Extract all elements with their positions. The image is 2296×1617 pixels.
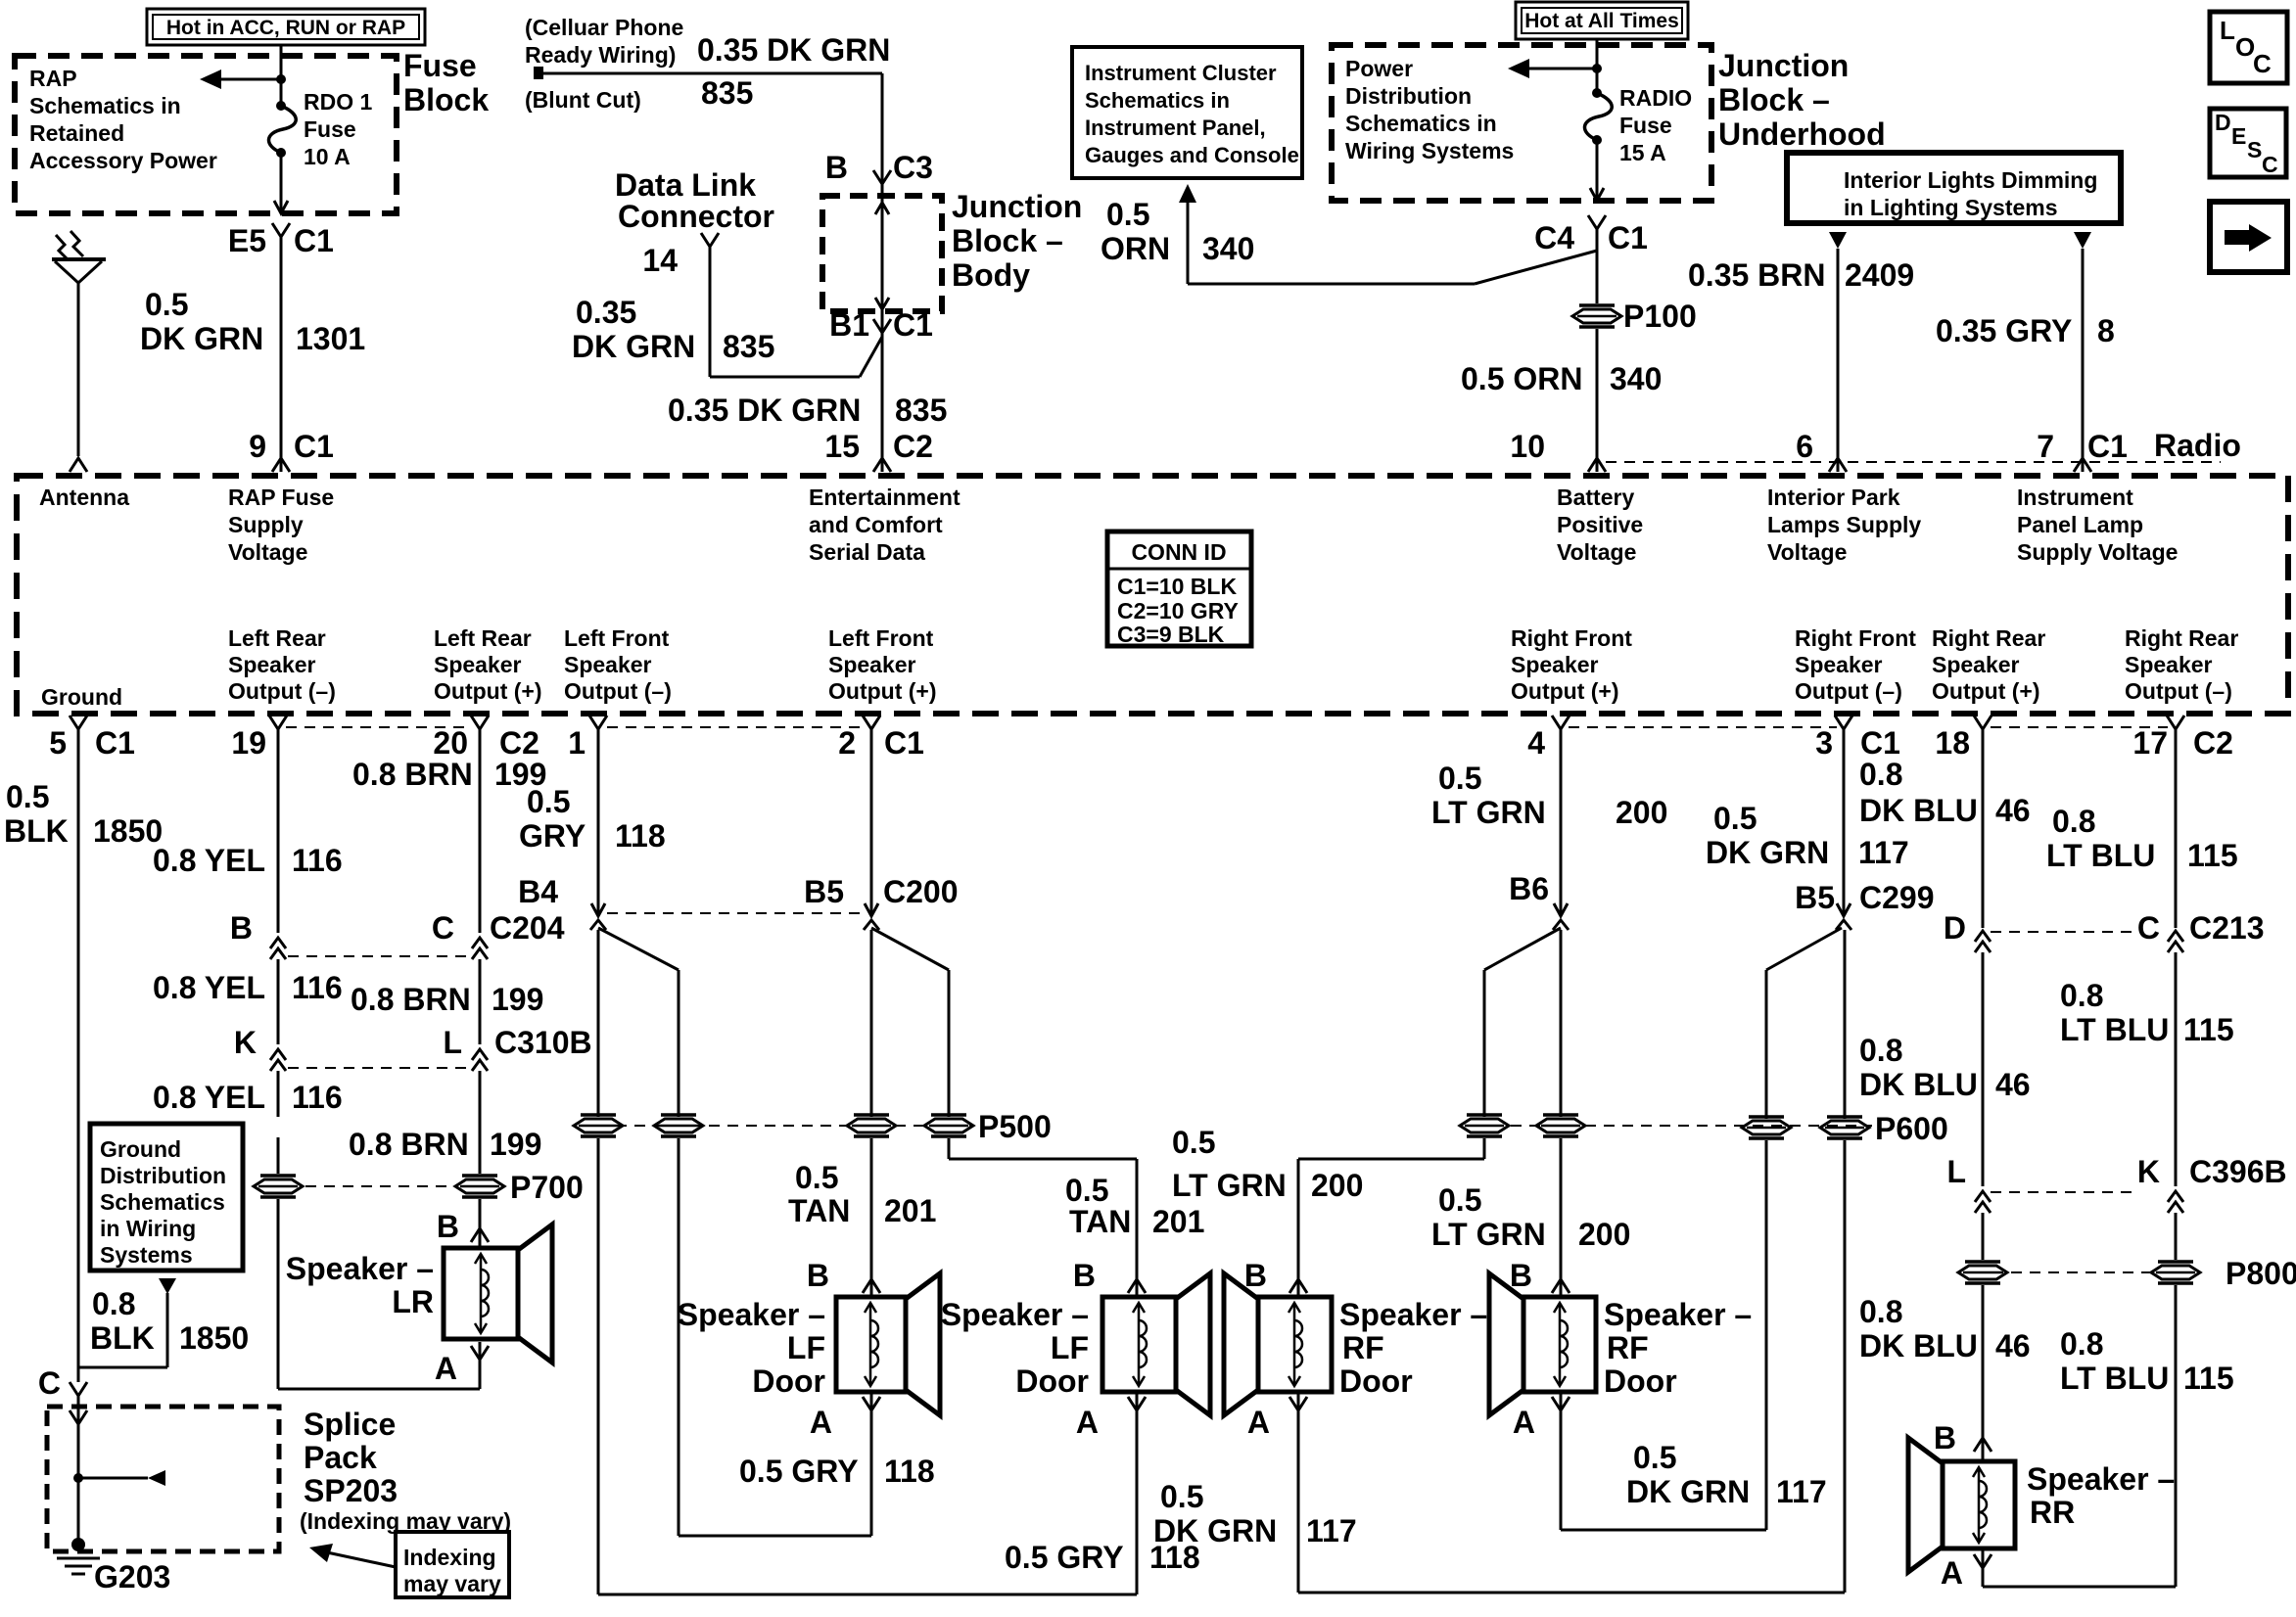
svg-text:C2=10 GRY: C2=10 GRY [1117, 598, 1239, 624]
svg-text:LT GRN: LT GRN [1431, 1217, 1546, 1252]
svg-text:46: 46 [1995, 1067, 2031, 1102]
svg-text:in Wiring: in Wiring [100, 1216, 196, 1241]
svg-text:DK GRN: DK GRN [1626, 1474, 1750, 1509]
svg-text:200: 200 [1578, 1217, 1630, 1252]
svg-text:C1: C1 [1860, 725, 1900, 761]
svg-text:C1: C1 [893, 307, 933, 343]
svg-text:117: 117 [1858, 835, 1909, 870]
svg-text:C396B: C396B [2189, 1154, 2287, 1189]
svg-text:Speaker: Speaker [1795, 652, 1883, 677]
svg-text:0.8 YEL: 0.8 YEL [153, 1080, 265, 1115]
svg-text:0.8 YEL: 0.8 YEL [153, 970, 265, 1005]
svg-text:Voltage: Voltage [228, 539, 307, 565]
svg-text:Distribution: Distribution [100, 1163, 226, 1188]
svg-text:0.8: 0.8 [2060, 978, 2103, 1013]
svg-text:4: 4 [1527, 725, 1545, 761]
svg-text:Underhood: Underhood [1718, 116, 1886, 152]
svg-text:Speaker –: Speaker – [1604, 1297, 1752, 1332]
svg-text:201: 201 [1152, 1204, 1204, 1239]
svg-text:340: 340 [1202, 231, 1254, 266]
svg-text:0.35: 0.35 [576, 295, 636, 330]
svg-text:C1: C1 [294, 429, 334, 464]
svg-text:Output (–): Output (–) [2125, 678, 2232, 704]
svg-text:Right Front: Right Front [1511, 625, 1632, 651]
svg-text:D: D [1944, 910, 1966, 946]
svg-text:46: 46 [1995, 793, 2031, 828]
svg-text:K: K [2137, 1154, 2160, 1189]
svg-text:C299: C299 [1859, 880, 1935, 915]
svg-text:DK GRN: DK GRN [140, 321, 263, 356]
svg-text:0.5: 0.5 [1172, 1125, 1215, 1160]
svg-text:Output (–): Output (–) [228, 678, 336, 704]
svg-text:B5: B5 [1795, 880, 1835, 915]
svg-text:DK GRN: DK GRN [1153, 1513, 1277, 1548]
svg-text:Junction: Junction [952, 189, 1082, 224]
svg-text:S: S [2247, 137, 2262, 162]
svg-text:10 A: 10 A [304, 144, 351, 169]
svg-text:Supply: Supply [228, 512, 304, 537]
svg-text:LR: LR [392, 1284, 434, 1319]
svg-text:RAP: RAP [29, 66, 77, 91]
svg-text:LF: LF [787, 1330, 825, 1365]
svg-text:Speaker: Speaker [564, 652, 652, 677]
svg-text:14: 14 [642, 243, 678, 278]
svg-text:Fuse: Fuse [304, 116, 356, 142]
svg-text:C204: C204 [490, 910, 565, 946]
svg-text:Output (+): Output (+) [828, 678, 937, 704]
svg-text:A: A [1076, 1405, 1099, 1440]
svg-text:C310B: C310B [494, 1025, 592, 1060]
svg-text:Right Rear: Right Rear [2125, 625, 2238, 651]
svg-text:may vary: may vary [403, 1571, 501, 1596]
svg-text:Battery: Battery [1557, 485, 1634, 510]
svg-text:A: A [1941, 1555, 1963, 1591]
svg-text:Wiring Systems: Wiring Systems [1345, 138, 1514, 163]
svg-text:C2: C2 [499, 725, 539, 761]
svg-text:Speaker: Speaker [1511, 652, 1599, 677]
svg-text:C213: C213 [2189, 910, 2265, 946]
svg-text:117: 117 [1776, 1474, 1827, 1509]
svg-text:DK BLU: DK BLU [1859, 793, 1978, 828]
svg-text:C: C [2262, 152, 2278, 177]
svg-text:Voltage: Voltage [1767, 539, 1847, 565]
svg-text:Schematics in: Schematics in [1345, 111, 1497, 136]
svg-text:10: 10 [1510, 429, 1545, 464]
svg-text:Radio: Radio [2154, 428, 2241, 463]
svg-text:115: 115 [2183, 1361, 2234, 1396]
svg-text:0.5: 0.5 [145, 287, 188, 322]
svg-text:RF: RF [1607, 1330, 1649, 1365]
svg-text:Serial Data: Serial Data [809, 539, 925, 565]
svg-text:Accessory Power: Accessory Power [29, 148, 217, 173]
svg-text:RADIO: RADIO [1619, 85, 1692, 111]
svg-text:C2: C2 [2193, 725, 2233, 761]
svg-text:C1=10 BLK: C1=10 BLK [1117, 574, 1237, 599]
svg-text:L: L [443, 1025, 462, 1060]
svg-text:LT GRN: LT GRN [1172, 1168, 1287, 1203]
svg-text:B: B [1244, 1258, 1267, 1293]
svg-text:Left Rear: Left Rear [434, 625, 532, 651]
svg-text:Schematics: Schematics [100, 1189, 225, 1215]
svg-text:Left Front: Left Front [828, 625, 934, 651]
svg-text:Systems: Systems [100, 1242, 193, 1268]
svg-text:Speaker –: Speaker – [2027, 1461, 2175, 1497]
svg-text:G203: G203 [94, 1559, 170, 1594]
svg-text:0.5: 0.5 [6, 779, 49, 814]
svg-text:LF: LF [1051, 1330, 1089, 1365]
svg-text:RF: RF [1342, 1330, 1384, 1365]
svg-text:(Blunt Cut): (Blunt Cut) [525, 87, 641, 113]
svg-text:Door: Door [1015, 1363, 1089, 1399]
svg-text:P800: P800 [2226, 1256, 2296, 1291]
svg-text:Speaker: Speaker [828, 652, 916, 677]
svg-text:0.8 BRN: 0.8 BRN [349, 1127, 469, 1162]
svg-text:Fuse: Fuse [1619, 113, 1672, 138]
svg-text:SP203: SP203 [304, 1473, 398, 1508]
svg-text:B: B [1934, 1420, 1956, 1455]
svg-text:Speaker –: Speaker – [1339, 1297, 1487, 1332]
svg-text:7: 7 [2037, 429, 2054, 464]
svg-text:ORN: ORN [1101, 231, 1170, 266]
svg-text:TAN: TAN [788, 1193, 850, 1228]
svg-text:15 A: 15 A [1619, 140, 1666, 165]
svg-text:115: 115 [2183, 1012, 2234, 1047]
svg-text:Body: Body [952, 257, 1030, 293]
svg-text:0.8: 0.8 [2052, 804, 2095, 839]
svg-text:Entertainment: Entertainment [809, 485, 961, 510]
svg-text:P100: P100 [1623, 299, 1697, 334]
svg-text:Antenna: Antenna [39, 485, 129, 510]
svg-text:P600: P600 [1875, 1111, 1948, 1146]
svg-text:0.35 DK GRN: 0.35 DK GRN [697, 32, 890, 68]
svg-text:Output (+): Output (+) [1511, 678, 1619, 704]
svg-text:Distribution: Distribution [1345, 83, 1472, 109]
svg-text:0.8 YEL: 0.8 YEL [153, 843, 265, 878]
svg-text:0.5 ORN: 0.5 ORN [1461, 361, 1582, 396]
svg-text:Left Rear: Left Rear [228, 625, 326, 651]
svg-text:0.8: 0.8 [1859, 757, 1902, 792]
svg-text:B4: B4 [518, 874, 558, 909]
svg-text:Voltage: Voltage [1557, 539, 1636, 565]
svg-text:Junction: Junction [1718, 48, 1849, 83]
svg-text:Instrument Cluster: Instrument Cluster [1085, 61, 1277, 85]
svg-text:0.5: 0.5 [1065, 1173, 1108, 1208]
svg-text:C3=9 BLK: C3=9 BLK [1117, 622, 1225, 647]
svg-text:Speaker –: Speaker – [941, 1297, 1089, 1332]
svg-text:Lamps Supply: Lamps Supply [1767, 512, 1921, 537]
svg-text:0.5: 0.5 [1160, 1479, 1203, 1514]
svg-text:C200: C200 [883, 874, 959, 909]
svg-text:B: B [230, 910, 253, 946]
svg-text:Block –: Block – [1718, 82, 1830, 117]
svg-text:L: L [2220, 16, 2235, 45]
svg-text:Interior Lights Dimming: Interior Lights Dimming [1844, 167, 2097, 193]
svg-text:199: 199 [490, 1127, 541, 1162]
svg-text:Speaker –: Speaker – [286, 1251, 434, 1286]
svg-text:Speaker –: Speaker – [678, 1297, 825, 1332]
svg-text:3: 3 [1815, 725, 1833, 761]
svg-text:TAN: TAN [1069, 1204, 1131, 1239]
svg-text:17: 17 [2132, 725, 2168, 761]
svg-text:Speaker: Speaker [434, 652, 522, 677]
svg-text:C1: C1 [884, 725, 924, 761]
svg-text:K: K [234, 1025, 257, 1060]
svg-text:Connector: Connector [618, 199, 774, 234]
svg-text:DK GRN: DK GRN [1706, 835, 1829, 870]
svg-text:Pack: Pack [304, 1440, 377, 1475]
svg-text:Panel Lamp: Panel Lamp [2017, 512, 2143, 537]
svg-text:Speaker: Speaker [2125, 652, 2213, 677]
svg-text:Block –: Block – [952, 223, 1063, 258]
svg-text:Supply Voltage: Supply Voltage [2017, 539, 2178, 565]
svg-text:Output (+): Output (+) [434, 678, 542, 704]
svg-text:Block: Block [403, 82, 489, 117]
svg-text:0.5: 0.5 [1438, 761, 1481, 796]
svg-text:C: C [432, 910, 454, 946]
svg-text:L: L [1946, 1154, 1966, 1189]
svg-text:E5: E5 [228, 223, 266, 258]
svg-text:C4: C4 [1534, 220, 1574, 255]
svg-text:5: 5 [49, 725, 67, 761]
svg-text:RDO 1: RDO 1 [304, 89, 373, 115]
svg-text:15: 15 [824, 429, 860, 464]
svg-text:Gauges and Console: Gauges and Console [1085, 143, 1299, 167]
svg-text:835: 835 [701, 75, 753, 111]
svg-text:199: 199 [492, 982, 543, 1017]
svg-text:Left Front: Left Front [564, 625, 670, 651]
svg-text:2: 2 [838, 725, 856, 761]
svg-text:1301: 1301 [296, 321, 365, 356]
svg-text:Hot in ACC, RUN or RAP: Hot in ACC, RUN or RAP [166, 17, 405, 39]
svg-text:RR: RR [2030, 1495, 2075, 1530]
svg-text:C: C [38, 1365, 61, 1401]
svg-text:P500: P500 [978, 1109, 1052, 1144]
svg-text:0.5: 0.5 [527, 784, 570, 819]
svg-text:Output (–): Output (–) [564, 678, 672, 704]
svg-text:9: 9 [249, 429, 266, 464]
svg-text:DK GRN: DK GRN [572, 329, 695, 364]
svg-text:Ground: Ground [100, 1136, 181, 1162]
svg-text:D: D [2215, 110, 2231, 135]
svg-text:DK BLU: DK BLU [1859, 1067, 1978, 1102]
svg-text:P700: P700 [510, 1170, 584, 1205]
svg-text:Speaker: Speaker [1932, 652, 2020, 677]
svg-text:Schematics in: Schematics in [29, 93, 181, 118]
svg-text:Schematics in: Schematics in [1085, 88, 1230, 113]
svg-text:Splice: Splice [304, 1407, 396, 1442]
svg-text:C1: C1 [294, 223, 334, 258]
svg-text:0.35 DK GRN: 0.35 DK GRN [668, 393, 861, 428]
svg-text:Data Link: Data Link [615, 167, 756, 203]
svg-text:(Celluar Phone: (Celluar Phone [525, 15, 683, 40]
svg-text:Power: Power [1345, 56, 1413, 81]
svg-text:Indexing: Indexing [403, 1545, 496, 1570]
svg-text:Door: Door [1339, 1363, 1413, 1399]
svg-text:0.8: 0.8 [2060, 1326, 2103, 1362]
svg-text:C2: C2 [893, 429, 933, 464]
svg-text:in Lighting Systems: in Lighting Systems [1844, 195, 2058, 220]
svg-text:C: C [2253, 49, 2272, 78]
svg-text:Speaker: Speaker [228, 652, 316, 677]
svg-text:6: 6 [1796, 429, 1813, 464]
svg-text:200: 200 [1616, 795, 1667, 830]
svg-text:B: B [825, 150, 848, 185]
svg-text:200: 200 [1311, 1168, 1363, 1203]
svg-text:0.35 BRN: 0.35 BRN [1688, 257, 1826, 293]
svg-text:20: 20 [433, 725, 468, 761]
svg-text:B1: B1 [829, 307, 869, 343]
svg-text:118: 118 [884, 1454, 935, 1489]
svg-text:C3: C3 [893, 150, 933, 185]
svg-text:LT BLU: LT BLU [2060, 1361, 2169, 1396]
svg-text:GRY: GRY [519, 818, 586, 854]
svg-text:B5: B5 [804, 874, 844, 909]
svg-text:B: B [437, 1209, 459, 1244]
svg-text:340: 340 [1610, 361, 1662, 396]
svg-text:Interior Park: Interior Park [1767, 485, 1900, 510]
svg-text:A: A [435, 1351, 457, 1386]
svg-text:0.5: 0.5 [795, 1160, 838, 1195]
svg-text:0.5: 0.5 [1713, 801, 1757, 836]
svg-text:B: B [807, 1258, 829, 1293]
svg-text:1850: 1850 [179, 1320, 249, 1356]
svg-text:117: 117 [1306, 1513, 1357, 1548]
svg-text:116: 116 [292, 843, 343, 878]
svg-text:C1: C1 [95, 725, 135, 761]
svg-text:LT BLU: LT BLU [2060, 1012, 2169, 1047]
svg-text:E: E [2231, 123, 2246, 149]
svg-text:1: 1 [568, 725, 586, 761]
svg-text:46: 46 [1995, 1328, 2031, 1363]
svg-text:Ground: Ground [41, 684, 122, 710]
svg-text:Instrument Panel,: Instrument Panel, [1085, 115, 1266, 140]
svg-text:2409: 2409 [1845, 257, 1914, 293]
svg-text:Hot at All Times: Hot at All Times [1524, 10, 1679, 32]
svg-text:LT BLU: LT BLU [2046, 838, 2155, 873]
svg-text:835: 835 [895, 393, 947, 428]
svg-text:Output (+): Output (+) [1932, 678, 2040, 704]
svg-text:Right Front: Right Front [1795, 625, 1916, 651]
svg-text:A: A [1247, 1405, 1270, 1440]
svg-text:C: C [2137, 910, 2160, 946]
svg-text:B6: B6 [1509, 871, 1549, 906]
svg-text:116: 116 [292, 970, 343, 1005]
svg-text:0.8 BRN: 0.8 BRN [352, 757, 473, 792]
svg-text:Output (–): Output (–) [1795, 678, 1902, 704]
svg-text:116: 116 [292, 1080, 343, 1115]
svg-text:A: A [810, 1405, 832, 1440]
svg-text:Right Rear: Right Rear [1932, 625, 2045, 651]
svg-text:C1: C1 [1608, 220, 1648, 255]
svg-text:0.35 GRY: 0.35 GRY [1936, 313, 2072, 348]
svg-text:0.8: 0.8 [92, 1286, 135, 1321]
svg-text:0.5: 0.5 [1633, 1440, 1676, 1475]
svg-text:Retained: Retained [29, 120, 124, 146]
svg-text:0.8: 0.8 [1859, 1033, 1902, 1068]
svg-text:Instrument: Instrument [2017, 485, 2133, 510]
svg-text:DK BLU: DK BLU [1859, 1328, 1978, 1363]
svg-text:835: 835 [723, 329, 774, 364]
svg-text:C1: C1 [2087, 429, 2128, 464]
svg-text:BLK: BLK [4, 813, 69, 849]
svg-text:A: A [1513, 1405, 1535, 1440]
svg-text:8: 8 [2097, 313, 2115, 348]
svg-text:LT GRN: LT GRN [1431, 795, 1546, 830]
svg-text:0.5 GRY: 0.5 GRY [1005, 1540, 1124, 1575]
svg-text:CONN ID: CONN ID [1131, 539, 1226, 565]
svg-text:0.5 GRY: 0.5 GRY [739, 1454, 859, 1489]
svg-text:RAP Fuse: RAP Fuse [228, 485, 334, 510]
svg-text:and Comfort: and Comfort [809, 512, 943, 537]
svg-text:Ready Wiring): Ready Wiring) [525, 42, 676, 68]
svg-text:B: B [1510, 1258, 1532, 1293]
svg-text:118: 118 [615, 818, 666, 854]
svg-text:0.8: 0.8 [1859, 1294, 1902, 1329]
svg-text:BLK: BLK [90, 1320, 155, 1356]
svg-text:201: 201 [884, 1193, 936, 1228]
svg-text:0.5: 0.5 [1106, 197, 1149, 232]
svg-text:Door: Door [752, 1363, 825, 1399]
svg-text:B: B [1073, 1258, 1096, 1293]
svg-text:19: 19 [231, 725, 266, 761]
svg-text:Fuse: Fuse [403, 48, 477, 83]
svg-text:0.8 BRN: 0.8 BRN [351, 982, 471, 1017]
svg-text:Positive: Positive [1557, 512, 1643, 537]
svg-text:115: 115 [2187, 838, 2238, 873]
svg-text:0.5: 0.5 [1438, 1182, 1481, 1218]
svg-text:Door: Door [1604, 1363, 1677, 1399]
svg-text:18: 18 [1935, 725, 1970, 761]
